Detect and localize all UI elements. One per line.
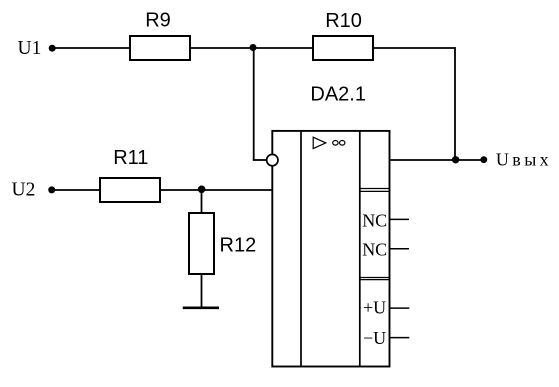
op-amp internal divider left	[300, 131, 302, 367]
node U1 terminal dot	[49, 45, 56, 52]
wire to inverting input circle	[253, 159, 267, 161]
wire R12 to ground	[201, 274, 203, 308]
wire feedback vertical down to output node	[454, 47, 456, 160]
svg-text:+U: +U	[363, 297, 386, 317]
resistor R9	[130, 36, 190, 60]
wire R10 to right corner	[373, 47, 455, 49]
svg-text:R9: R9	[145, 9, 171, 31]
pin NC 2 lead	[390, 248, 410, 250]
amplifier triangle symbol	[313, 137, 326, 148]
wire R11 to op-amp non-inverting input	[160, 189, 272, 191]
resistor R10	[313, 36, 373, 60]
wire node B down to R12	[201, 190, 203, 213]
op-amp U1 body DA2.1 outer rectangle	[272, 131, 389, 367]
svg-text:R11: R11	[113, 147, 148, 169]
right column section line 1a	[360, 188, 390, 190]
svg-text:Uвых: Uвых	[496, 150, 552, 170]
wire R9 to R10	[190, 47, 313, 49]
svg-text:R12: R12	[220, 234, 257, 256]
wire U1 to R9	[56, 47, 131, 49]
junction node B dot	[198, 186, 206, 194]
wire op-amp output	[390, 159, 484, 161]
junction output node dot	[452, 156, 459, 163]
svg-text:DA2.1: DA2.1	[310, 84, 366, 106]
infinity gain symbol right circle	[340, 141, 345, 146]
right column section line 2b	[360, 279, 390, 281]
svg-text:NC: NC	[362, 210, 387, 230]
infinity gain symbol left circle	[333, 141, 338, 146]
inverting input circle	[267, 154, 278, 165]
ground symbol	[183, 306, 219, 309]
right column section line 2a	[360, 277, 390, 279]
node U2 terminal dot	[48, 186, 55, 193]
resistor R11	[100, 178, 160, 202]
wire U2 to R11	[55, 189, 100, 191]
svg-text:−U: −U	[363, 328, 386, 348]
svg-text:U2: U2	[12, 180, 36, 201]
resistor R12	[189, 213, 214, 274]
pin +U lead	[390, 307, 410, 309]
junction node A dot	[250, 44, 257, 51]
svg-text:R10: R10	[325, 10, 362, 32]
op-amp internal divider right column	[359, 131, 361, 367]
pin -U lead	[390, 337, 410, 339]
pin NC 1 lead	[390, 218, 410, 220]
wire node A down to inverting input	[253, 48, 255, 160]
right column section line 1b	[360, 190, 390, 192]
svg-text:U1: U1	[18, 38, 42, 59]
svg-text:NC: NC	[362, 240, 387, 260]
terminal Uout dot	[480, 156, 487, 163]
